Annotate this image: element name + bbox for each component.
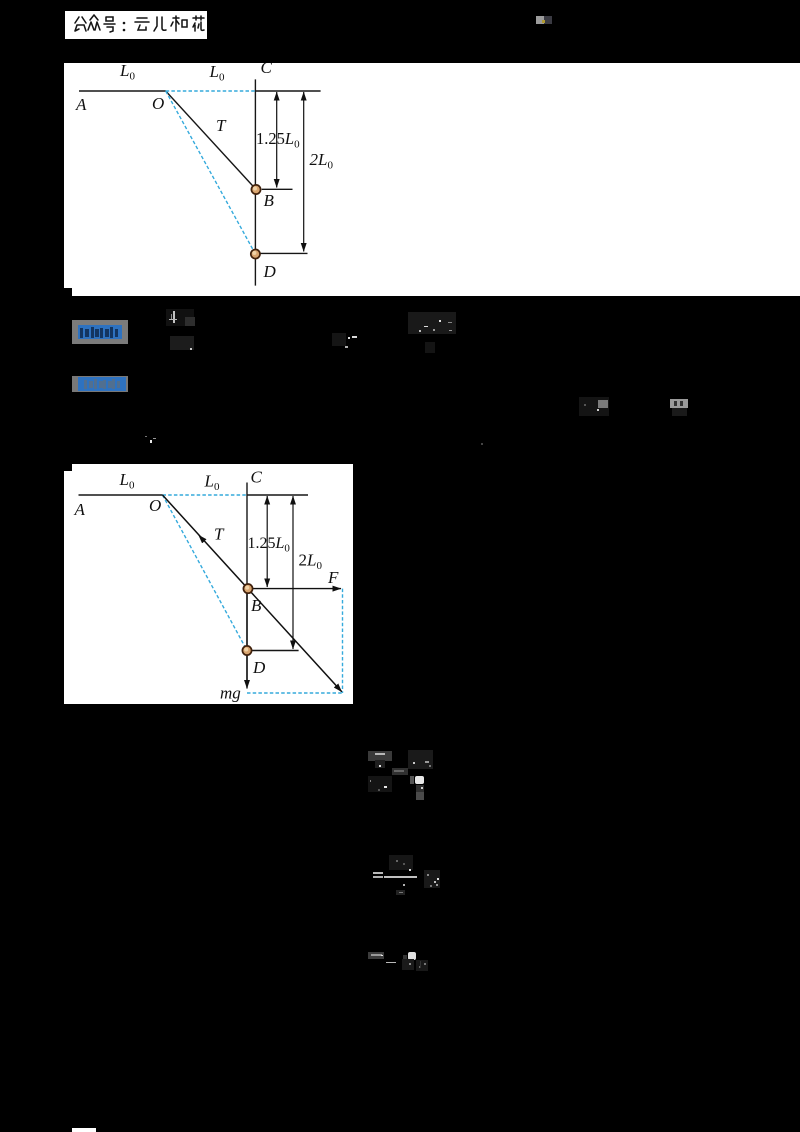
svg-text:1.25L0: 1.25L0	[256, 129, 300, 151]
svg-text:C: C	[250, 467, 262, 486]
svg-text:D: D	[252, 658, 266, 677]
svg-text:F: F	[327, 568, 339, 587]
svg-text:L0: L0	[119, 63, 135, 83]
svg-text:T: T	[216, 116, 227, 135]
svg-text:L0: L0	[203, 471, 219, 493]
svg-text:A: A	[73, 500, 85, 519]
svg-text:A: A	[75, 95, 87, 114]
svg-text:T: T	[214, 524, 225, 543]
svg-text:1.25L0: 1.25L0	[247, 535, 290, 555]
svg-text:L0: L0	[209, 63, 225, 84]
svg-text:L0: L0	[118, 470, 134, 492]
svg-text:2L0: 2L0	[298, 550, 322, 572]
svg-text:2L0: 2L0	[310, 150, 334, 172]
svg-text:B: B	[264, 191, 275, 210]
svg-text:O: O	[152, 94, 164, 113]
svg-text:mg: mg	[220, 683, 241, 702]
svg-text:O: O	[149, 496, 161, 515]
svg-text:C: C	[261, 63, 273, 77]
svg-text:D: D	[263, 262, 277, 281]
svg-text:B: B	[251, 596, 262, 615]
